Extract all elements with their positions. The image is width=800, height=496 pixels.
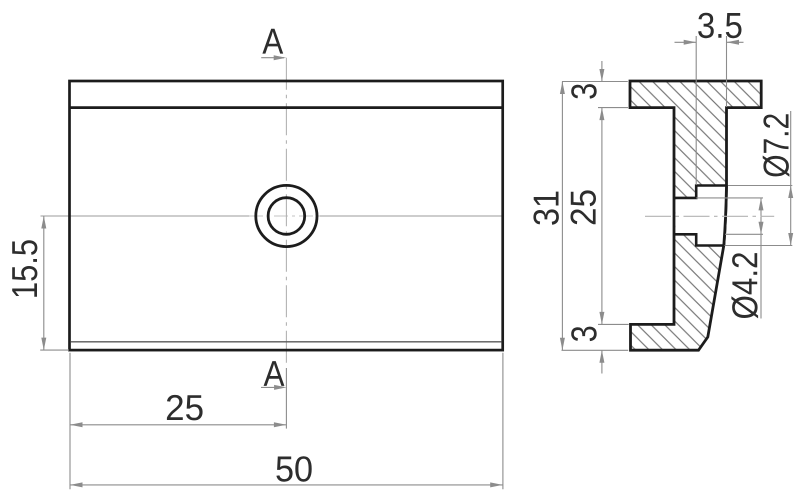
top band edge	[70, 106, 503, 109]
plate outline	[70, 81, 503, 350]
dimension 50	[70, 353, 503, 489]
section line A-A (vertical centerline)	[285, 58, 287, 368]
section body (hatched)	[630, 81, 761, 350]
thin edge near bottom	[71, 341, 502, 343]
section label A top	[262, 29, 283, 54]
dimension 25 (front)	[70, 368, 286, 429]
dimension 15.5	[40, 216, 69, 350]
dimension Ø7.2	[725, 111, 793, 246]
hole outer circle	[256, 185, 317, 246]
right edge through hole (curve)	[724, 186, 727, 246]
dimension Ø4.2	[696, 198, 763, 319]
hole inner circle	[268, 198, 305, 235]
dimension 31	[561, 82, 563, 351]
dimension 3.5	[675, 36, 744, 185]
hole edges	[674, 186, 727, 198]
hole opening (white)	[676, 186, 727, 246]
dimension 25 (section)	[601, 108, 603, 325]
horizontal centerline	[41, 215, 254, 217]
dimension 3 bottom	[601, 350, 603, 373]
dimension 3 top	[601, 61, 603, 82]
section label A bottom	[264, 361, 285, 386]
extension lines (section left)	[562, 82, 629, 351]
section view centerline	[645, 215, 774, 217]
